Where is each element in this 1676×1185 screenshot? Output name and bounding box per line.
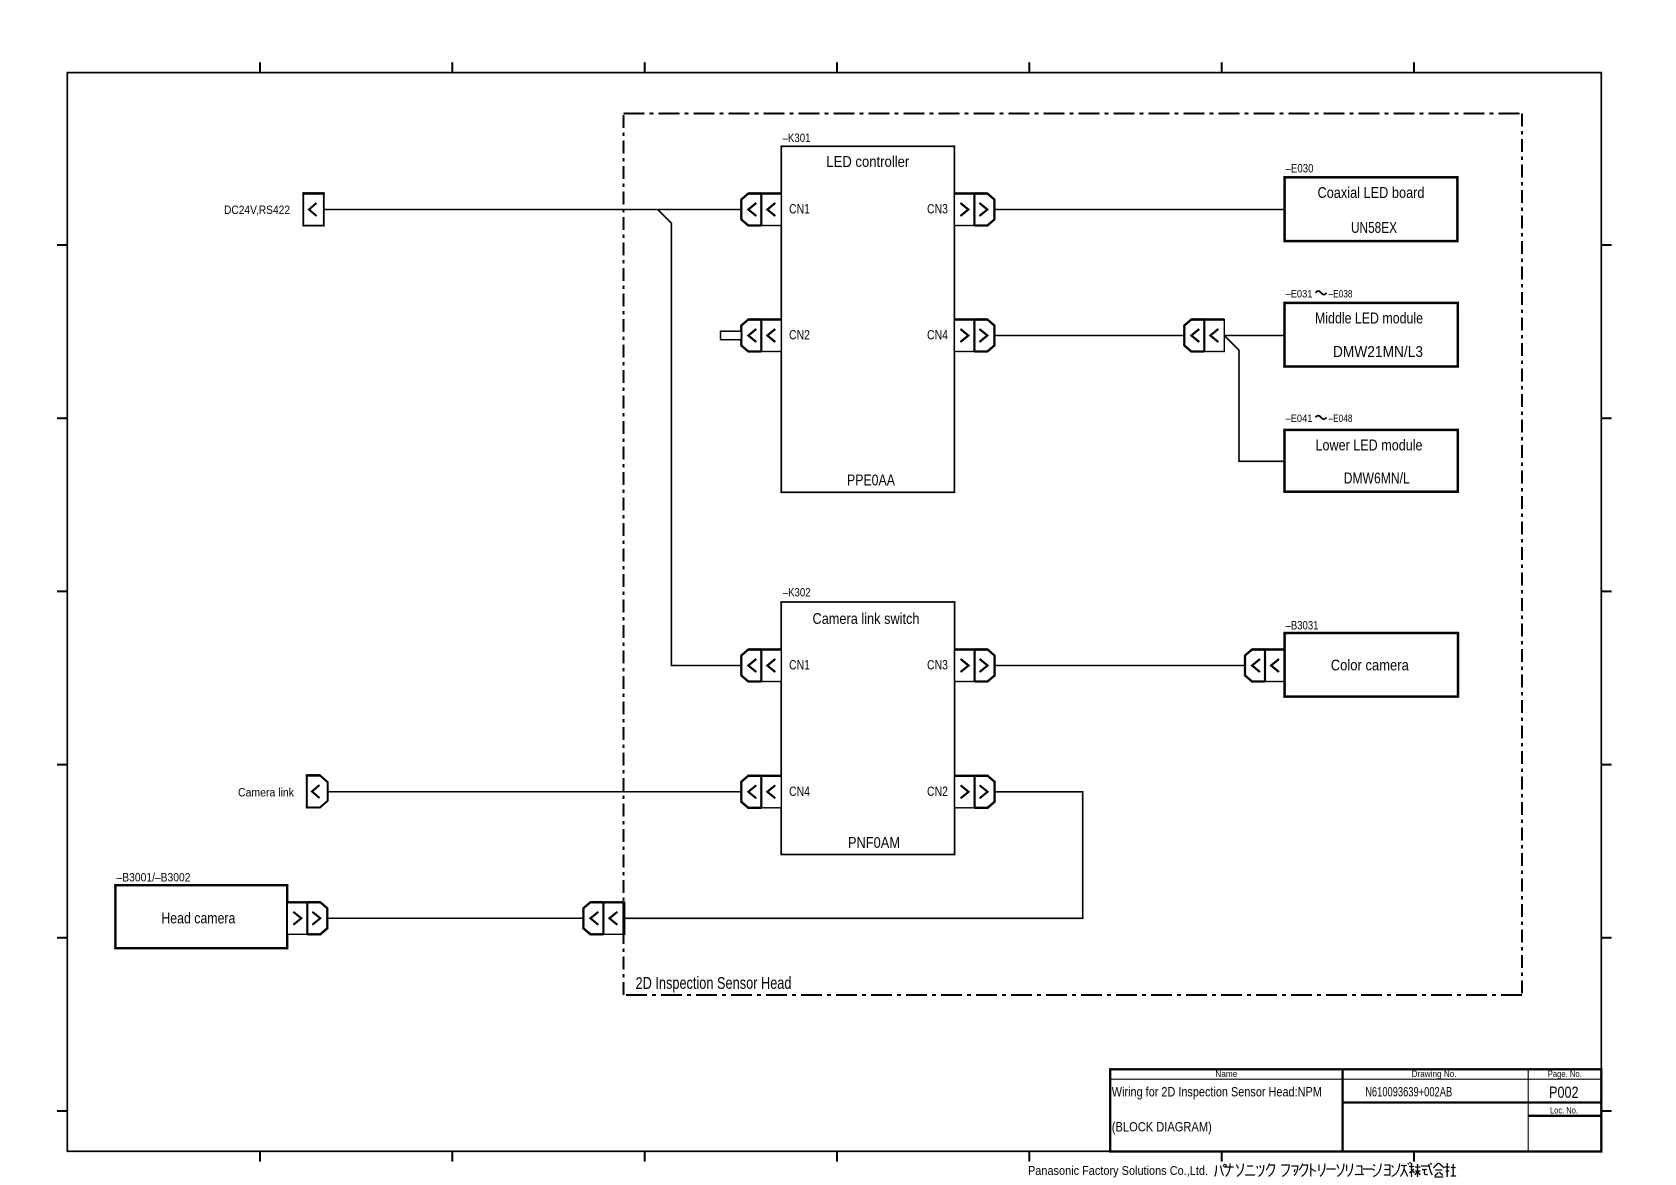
block E031-E038 Middle LED module DMW21MN/L3	[1285, 288, 1458, 366]
pin label CN2 (K302)	[927, 784, 948, 799]
wire: K301 CN3 to E030 Coaxial LED board	[994, 209, 1284, 211]
title block	[1110, 1069, 1601, 1151]
svg-text:–E038: –E038	[1329, 288, 1353, 300]
connector pair: K302 CN1 (left)	[741, 650, 781, 682]
connector pair: head camera cable at sensor-head boundary	[583, 902, 624, 936]
label Camera link	[238, 787, 294, 799]
svg-text:CN2: CN2	[927, 784, 948, 799]
wire: head camera to boundary pair	[327, 917, 583, 919]
block B3031 Color camera	[1285, 621, 1458, 697]
label DC24V,RS422	[224, 205, 290, 217]
connector pair: E031 Middle LED module inline	[1184, 320, 1224, 352]
boundary box: 2D Inspection Sensor Head	[624, 114, 1523, 996]
svg-text:–E041: –E041	[1286, 413, 1313, 425]
pin label CN4 (K302)	[789, 784, 810, 799]
pin label CN4	[927, 328, 948, 343]
svg-text:PPE0AA: PPE0AA	[847, 472, 895, 489]
svg-text:–E048: –E048	[1329, 413, 1353, 425]
svg-text:–B3031: –B3031	[1286, 621, 1319, 633]
svg-text:–K302: –K302	[783, 588, 811, 600]
svg-text:PNF0AM: PNF0AM	[848, 835, 900, 852]
svg-text:Head camera: Head camera	[161, 910, 235, 927]
svg-text:Lower LED module: Lower LED module	[1316, 438, 1423, 455]
svg-text:CN3: CN3	[927, 658, 948, 673]
connector pair: K301 CN2 (left) with open stub	[721, 320, 782, 352]
svg-text:CN4: CN4	[927, 328, 948, 343]
svg-text:CN1: CN1	[789, 658, 810, 673]
svg-text:CN1: CN1	[789, 202, 810, 217]
wire: branch from DC24V wire down to K302 CN1	[658, 210, 742, 666]
svg-text:UN58EX: UN58EX	[1351, 220, 1397, 237]
svg-text:P002: P002	[1549, 1083, 1579, 1102]
pin label CN3	[927, 202, 948, 217]
pin label CN3 (K302)	[927, 658, 948, 673]
svg-text:CN3: CN3	[927, 202, 948, 217]
block E030 Coaxial LED board UN58EX	[1285, 164, 1458, 242]
svg-text:Middle LED module: Middle LED module	[1315, 310, 1423, 327]
company name footer	[1028, 1163, 1208, 1178]
svg-text:–B3001/–B3002: –B3001/–B3002	[117, 873, 191, 885]
wire: K301 CN4 to E031 connector pair	[994, 335, 1184, 337]
svg-text:CN2: CN2	[789, 328, 810, 343]
connector pair: K302 CN3 (right)	[955, 650, 995, 682]
svg-text:(BLOCK DIAGRAM): (BLOCK DIAGRAM)	[1112, 1119, 1212, 1135]
svg-text:LED controller: LED controller	[826, 154, 910, 171]
svg-text:DC24V,RS422: DC24V,RS422	[224, 205, 290, 217]
connector: DC24V,RS422 cable end	[302, 193, 324, 225]
svg-text:Panasonic Factory Solutions Co: Panasonic Factory Solutions Co.,Ltd.	[1028, 1163, 1208, 1178]
block B3001/B3002 Head camera	[115, 873, 287, 949]
connector: Camera link cable end	[306, 775, 328, 807]
svg-text:Coaxial LED board: Coaxial LED board	[1318, 185, 1425, 202]
svg-text:Color camera: Color camera	[1331, 658, 1409, 675]
svg-text:Camera link switch: Camera link switch	[813, 611, 920, 628]
pin label CN2	[789, 328, 810, 343]
block E041-E048 Lower LED module DMW6MN/L	[1285, 413, 1458, 492]
svg-text:N610093639+002AB: N610093639+002AB	[1365, 1085, 1452, 1100]
svg-text:Drawing No.: Drawing No.	[1412, 1069, 1457, 1079]
connector pair: K302 CN2 (right)	[955, 776, 995, 808]
pin label CN1	[789, 202, 810, 217]
wire: DC24V,RS422 to K301 CN1	[324, 209, 742, 211]
svg-text:CN4: CN4	[789, 784, 810, 799]
svg-text:Page. No.: Page. No.	[1548, 1069, 1582, 1079]
connector pair: K302 CN4 (left)	[741, 776, 781, 808]
svg-text:Wiring for 2D Inspection Senso: Wiring for 2D Inspection Sensor Head:NPM	[1112, 1084, 1322, 1100]
svg-text:–K301: –K301	[783, 133, 811, 145]
svg-text:–E030: –E030	[1286, 164, 1314, 176]
label: 2D Inspection Sensor Head	[636, 973, 792, 993]
svg-text:DMW21MN/L3: DMW21MN/L3	[1333, 344, 1423, 361]
wire: K302 CN3 to B3031 Color camera	[995, 665, 1245, 667]
svg-text:Name: Name	[1215, 1069, 1237, 1079]
connector pair: K301 CN3 (right)	[954, 194, 994, 226]
wire: Camera link to K302 CN4	[328, 791, 742, 793]
svg-text:2D Inspection Sensor Head: 2D Inspection Sensor Head	[636, 973, 792, 993]
svg-text:DMW6MN/L: DMW6MN/L	[1344, 471, 1410, 488]
connector pair: B3031 Color camera inline	[1245, 650, 1285, 682]
pin label CN1 (K302)	[789, 658, 810, 673]
svg-text:–E031: –E031	[1286, 288, 1313, 300]
wire: pair to E031 box	[1224, 335, 1284, 337]
svg-text:Loc. No.: Loc. No.	[1550, 1105, 1578, 1115]
connector pair: K301 CN1 (left)	[741, 194, 781, 226]
svg-text:Camera link: Camera link	[238, 787, 294, 799]
block K302 Camera link switch PNF0AM	[781, 588, 954, 855]
connector pair: K301 CN4 (right)	[954, 320, 994, 352]
wire: K302 CN2 down to head camera line	[625, 792, 1083, 919]
connector pair: B3001 Head camera output	[287, 902, 327, 934]
block K301 LED controller PPE0AA	[781, 133, 954, 492]
wire: branch down to E041 Lower LED module	[1224, 336, 1284, 462]
